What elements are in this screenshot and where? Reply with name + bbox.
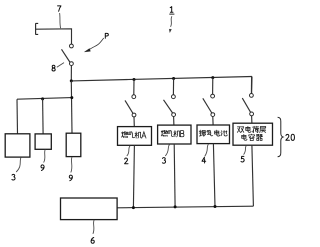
wire bus to switch SB xyxy=(172,79,174,95)
junction bottom bus / box 2 xyxy=(132,206,135,209)
leader line for label 5 xyxy=(244,146,247,155)
leader line for label 3 (L1) xyxy=(16,157,21,172)
box 2: gas engine A (燃气机A) xyxy=(118,127,152,146)
wire junction to box 9 (L2) xyxy=(42,99,45,134)
switch SB upper contact xyxy=(172,95,176,99)
label 20 xyxy=(286,134,295,140)
switch SD upper contact xyxy=(250,94,254,98)
wire box 2 to bottom bus xyxy=(133,145,134,207)
switch SC lower contact xyxy=(211,113,215,117)
wire bus to switch SD xyxy=(250,77,252,94)
wire left branch horizontal xyxy=(17,98,72,100)
junction left branch / box 9 (L2) xyxy=(41,97,44,100)
junction bottom bus / box 3 xyxy=(174,205,177,208)
wire from connector 7 to switch 8 xyxy=(36,29,72,44)
junction top bus / branch B xyxy=(172,77,175,80)
switch 8 upper contact xyxy=(70,44,74,48)
box 6: controller (bottom wide box) xyxy=(61,198,118,220)
label 6 xyxy=(91,238,94,244)
label 9 (L3) xyxy=(69,175,72,181)
leader arrow from label 1 xyxy=(169,16,172,32)
wire left branch to box 3 (L1) xyxy=(16,99,19,134)
switch SA upper contact xyxy=(132,95,136,99)
wire top bus right corner down to switch SD xyxy=(251,77,253,94)
label 5 xyxy=(241,156,244,162)
label 8 xyxy=(52,65,55,71)
wire bus to switch SC xyxy=(212,78,214,95)
switch 8 lower contact xyxy=(70,62,74,66)
switch SC blade xyxy=(203,98,212,113)
switch SD blade xyxy=(242,98,250,112)
box L2 (ref 9) xyxy=(35,134,51,149)
leader line for label 9 (L2) xyxy=(44,150,46,163)
charging connector 7 (plug terminal symbol) xyxy=(36,23,39,34)
junction left branch / main vertical xyxy=(70,96,73,99)
leader line for label 6 xyxy=(93,220,94,234)
wire switch SA to box xyxy=(133,117,135,127)
label 2 xyxy=(125,158,128,164)
switch SA blade xyxy=(125,100,133,113)
wire box 4 to bottom bus xyxy=(213,144,215,207)
leader line for label 4 xyxy=(205,144,209,156)
label 7 xyxy=(58,6,61,11)
arrow P (curved pointer) xyxy=(84,38,103,52)
wire switch SC to box xyxy=(212,117,214,125)
switch SB blade xyxy=(164,100,173,113)
label 3 xyxy=(162,158,165,164)
box 4: NiMH battery (镍氢电池) xyxy=(197,125,230,144)
label 9 (L2) xyxy=(41,165,44,171)
label 4 xyxy=(202,157,206,163)
wire main vertical bus to left branch and box 9 (L3) xyxy=(70,81,73,133)
label 1 (figure reference numeral) xyxy=(169,7,174,15)
wire switch SD to box xyxy=(251,116,253,123)
junction top bus / branch C xyxy=(211,76,214,79)
switch SB lower contact xyxy=(172,113,176,117)
switch SC upper contact xyxy=(211,94,215,98)
leader line for label 2 xyxy=(127,146,130,156)
leader line for label 7 xyxy=(60,13,61,28)
wire bus to switch SA xyxy=(133,80,135,95)
leader line for label 9 (L3) xyxy=(71,157,72,173)
switch SD lower contact xyxy=(250,112,254,116)
switch SA lower contact xyxy=(132,113,136,117)
box L1 (ref 3) xyxy=(5,134,30,157)
box 5: electric double layer capacitor (双电荷层/电容器) xyxy=(233,123,273,145)
leader line for label 3 xyxy=(165,145,169,157)
brace grouping power sources 20 xyxy=(278,117,283,157)
leader line for label 8 xyxy=(57,63,64,68)
label P xyxy=(105,33,108,38)
junction bottom bus / box 4 xyxy=(214,205,217,208)
switch 8 blade xyxy=(62,49,70,62)
box 3: gas engine B (燃气机B) xyxy=(158,125,191,144)
wire switch SB to box xyxy=(173,117,175,126)
wire bottom bus xyxy=(117,206,253,208)
label 3 (L1) xyxy=(12,174,15,180)
wire box 5 to bottom bus (right corner) xyxy=(252,145,254,206)
junction at switch 8 / top bus xyxy=(70,79,73,82)
wire main vertical from switch 8 to bus xyxy=(70,66,72,81)
box L3 (ref 9) xyxy=(66,133,81,156)
junction top bus / branch A xyxy=(133,78,136,81)
wire top bus xyxy=(71,77,252,81)
wire box 3 to bottom bus xyxy=(173,144,176,207)
